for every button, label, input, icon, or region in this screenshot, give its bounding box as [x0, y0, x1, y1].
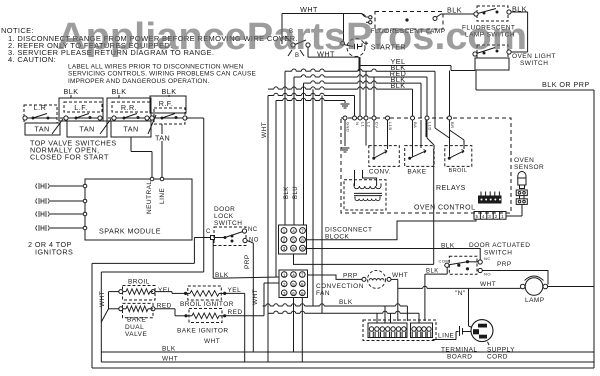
svg-text:BLK: BLK: [162, 87, 177, 96]
svg-text:CORD: CORD: [487, 354, 508, 361]
svg-text:IMPROPER AND DANGEROUS OPERATI: IMPROPER AND DANGEROUS OPERATION.: [68, 78, 210, 85]
svg-text:LOCK: LOCK: [214, 213, 234, 220]
svg-text:BAKE IGNITOR: BAKE IGNITOR: [177, 328, 229, 335]
svg-text:WHT: WHT: [162, 356, 178, 363]
svg-text:NC: NC: [484, 256, 491, 261]
svg-text:L1: L1: [361, 122, 366, 128]
svg-text:DOOR ACTUATED: DOOR ACTUATED: [469, 242, 530, 249]
svg-text:OVEN: OVEN: [514, 157, 534, 164]
svg-text:RED: RED: [228, 309, 243, 316]
svg-text:4. CAUTION:: 4. CAUTION:: [8, 55, 56, 64]
svg-text:BAKE: BAKE: [407, 169, 426, 176]
svg-text:C: C: [206, 229, 211, 235]
svg-text:SWITCH: SWITCH: [214, 220, 242, 227]
svg-text:NO: NO: [249, 238, 259, 244]
svg-text:LINE: LINE: [438, 333, 454, 340]
svg-text:R.F.: R.F.: [159, 99, 174, 108]
svg-text:VALVE: VALVE: [125, 331, 147, 338]
svg-text:BR: BR: [450, 122, 455, 128]
svg-text:YEL: YEL: [158, 287, 172, 294]
svg-text:PRP: PRP: [343, 273, 358, 280]
svg-text:WHT: WHT: [480, 281, 496, 288]
svg-text:BLK OR PRP: BLK OR PRP: [542, 80, 590, 89]
svg-text:OVEN CONTROL: OVEN CONTROL: [414, 205, 475, 212]
svg-text:N: N: [355, 122, 360, 125]
svg-text:GND: GND: [346, 122, 351, 132]
svg-text:L2: L2: [367, 122, 372, 128]
svg-text:TAN: TAN: [123, 125, 138, 134]
svg-text:WHT: WHT: [252, 289, 259, 305]
svg-text:BOARD: BOARD: [447, 354, 472, 361]
svg-text:LINE: LINE: [159, 188, 166, 204]
svg-text:SPARK MODULE: SPARK MODULE: [99, 227, 161, 236]
svg-text:BLK: BLK: [339, 299, 353, 306]
svg-text:L.F.: L.F.: [74, 103, 87, 112]
svg-text:BLK: BLK: [64, 87, 79, 96]
svg-text:TAN: TAN: [79, 125, 94, 134]
svg-text:CLOSED FOR START: CLOSED FOR START: [30, 153, 109, 162]
svg-text:TERMINAL: TERMINAL: [441, 347, 477, 354]
svg-text:WHT: WHT: [99, 291, 106, 307]
svg-text:BROIL: BROIL: [449, 168, 468, 174]
svg-text:BLK: BLK: [162, 346, 176, 353]
svg-text:WHT: WHT: [300, 5, 318, 14]
svg-text:NEUTRAL: NEUTRAL: [146, 181, 153, 215]
svg-text:SUPPLY: SUPPLY: [487, 347, 515, 354]
svg-text:R.R.: R.R.: [121, 103, 137, 112]
svg-text:SENSOR: SENSOR: [514, 164, 544, 171]
svg-text:SERVICING CONTROLS. WIRING PRO: SERVICING CONTROLS. WIRING PROBLEMS CAN …: [68, 71, 256, 78]
svg-text:BA: BA: [413, 122, 418, 128]
svg-text:"N": "N": [455, 290, 466, 297]
svg-text:RELAYS: RELAYS: [436, 185, 466, 192]
svg-text:TAN: TAN: [155, 134, 170, 143]
svg-text:WHT: WHT: [392, 272, 408, 279]
svg-text:BLK: BLK: [447, 6, 462, 15]
svg-text:LAMP: LAMP: [525, 297, 545, 304]
svg-text:AppliancePartsPros.com: AppliancePartsPros.com: [57, 16, 527, 58]
svg-text:FAN: FAN: [316, 290, 330, 297]
svg-text:WHT: WHT: [261, 122, 268, 138]
svg-text:L1B: L1B: [388, 122, 393, 130]
svg-text:BAKE: BAKE: [127, 317, 146, 324]
svg-text:DOOR: DOOR: [214, 206, 235, 213]
svg-text:PRP: PRP: [244, 254, 251, 269]
svg-text:BROIL IGNITOR: BROIL IGNITOR: [180, 301, 234, 308]
svg-text:NC: NC: [248, 227, 258, 233]
svg-text:DUAL: DUAL: [125, 324, 144, 331]
svg-text:WHT: WHT: [204, 338, 220, 345]
svg-text:LABEL ALL WIRES PRIOR TO DISCO: LABEL ALL WIRES PRIOR TO DISCONNECTION W…: [68, 64, 244, 71]
svg-text:IGNITORS: IGNITORS: [35, 248, 73, 257]
svg-text:NO: NO: [484, 272, 491, 277]
svg-text:BLOCK: BLOCK: [325, 234, 350, 241]
svg-text:CONV.: CONV.: [369, 169, 391, 176]
svg-text:PRP: PRP: [497, 261, 512, 268]
svg-text:CV: CV: [375, 122, 380, 128]
svg-text:TAN: TAN: [34, 125, 49, 134]
svg-text:SWITCH: SWITCH: [520, 60, 548, 67]
svg-text:BLK: BLK: [426, 269, 439, 275]
svg-text:CONVECTION: CONVECTION: [316, 283, 364, 290]
svg-text:BLK: BLK: [112, 87, 127, 96]
svg-text:L.R: L.R: [34, 103, 47, 112]
svg-text:L1D: L1D: [428, 122, 433, 131]
svg-text:DISCONNECT: DISCONNECT: [325, 227, 372, 234]
svg-text:BLK: BLK: [441, 243, 455, 250]
svg-text:BROIL: BROIL: [128, 279, 150, 286]
